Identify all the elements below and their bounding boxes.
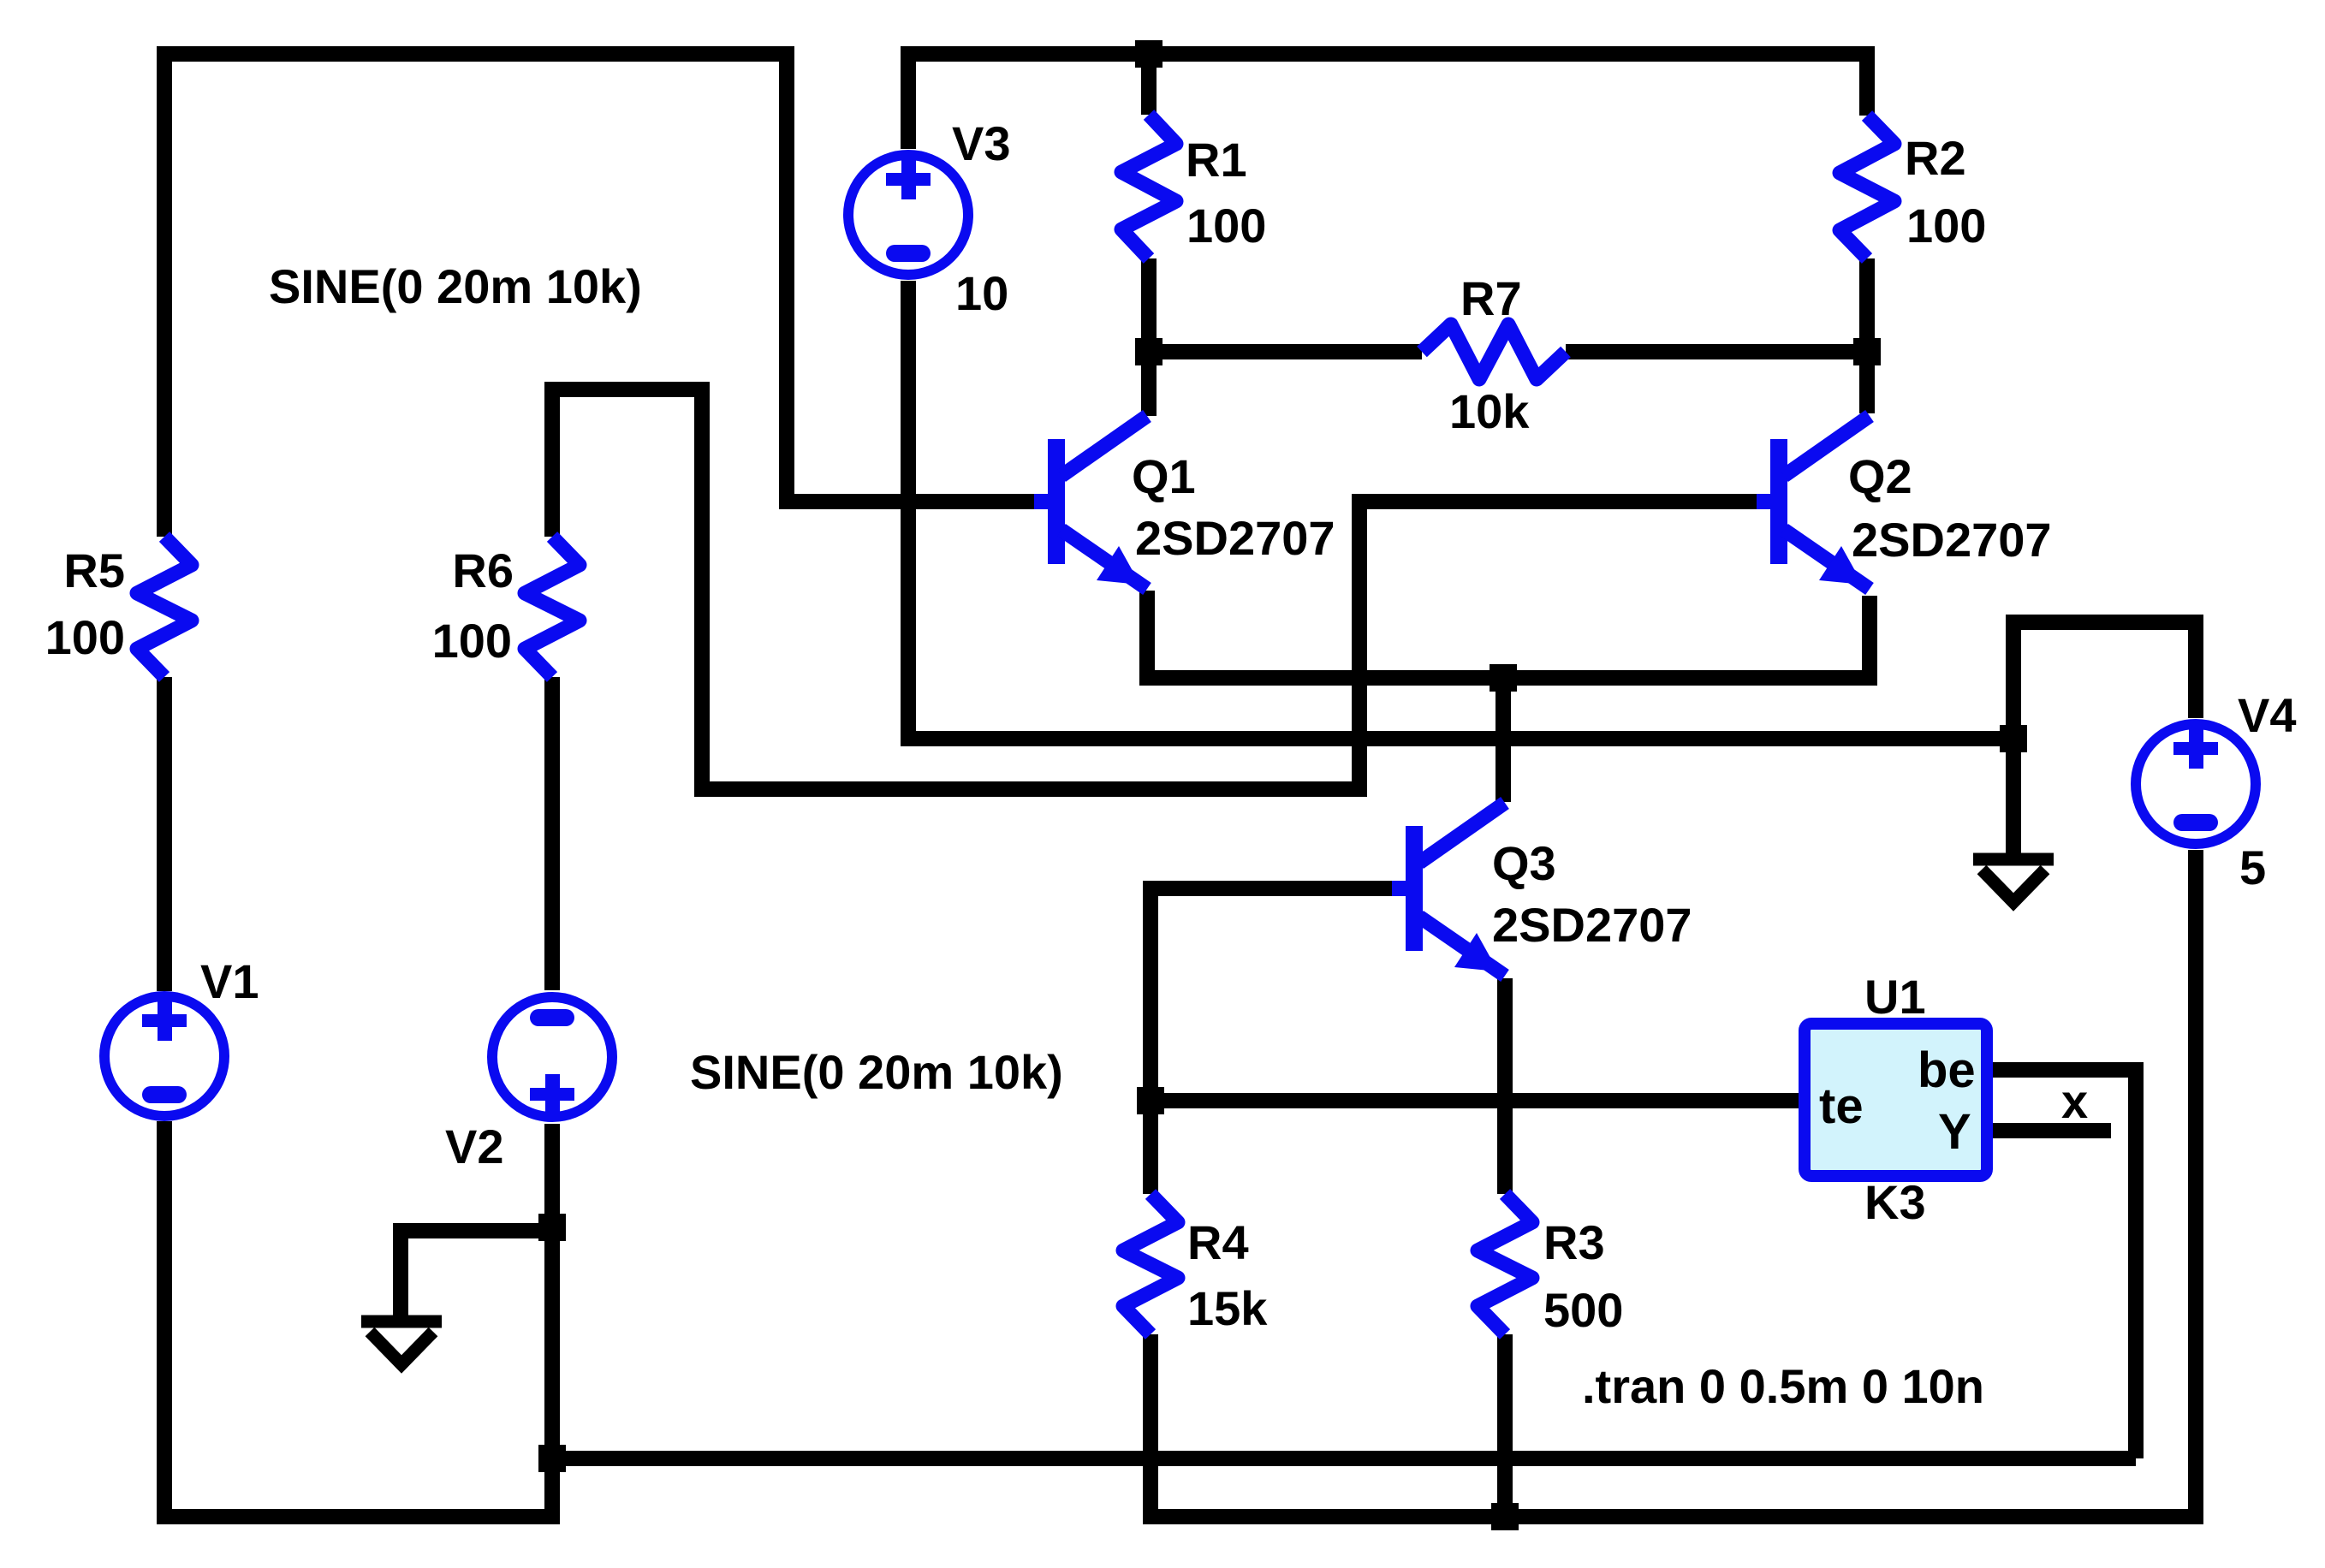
svg-text:V4: V4 — [2238, 688, 2297, 742]
svg-text:100: 100 — [1906, 199, 1986, 252]
svg-text:V3: V3 — [952, 116, 1011, 170]
svg-text:5: 5 — [2239, 840, 2266, 894]
svg-text:be: be — [1918, 1042, 1976, 1098]
svg-text:15k: 15k — [1187, 1281, 1268, 1335]
svg-text:R7: R7 — [1460, 271, 1522, 325]
svg-text:2SD2707: 2SD2707 — [1135, 511, 1335, 565]
svg-text:Q3: Q3 — [1492, 836, 1556, 890]
svg-text:x: x — [2061, 1074, 2088, 1128]
svg-text:10: 10 — [955, 266, 1008, 320]
svg-text:100: 100 — [432, 614, 512, 668]
svg-text:V2: V2 — [445, 1120, 504, 1173]
svg-text:SINE(0 20m 10k): SINE(0 20m 10k) — [690, 1045, 1063, 1099]
svg-text:10k: 10k — [1449, 384, 1530, 438]
svg-text:2SD2707: 2SD2707 — [1492, 898, 1692, 952]
svg-text:te: te — [1819, 1078, 1864, 1134]
svg-text:R6: R6 — [452, 543, 514, 597]
svg-text:Q2: Q2 — [1848, 449, 1912, 503]
svg-text:R2: R2 — [1905, 131, 1966, 185]
svg-text:100: 100 — [1186, 199, 1266, 252]
svg-text:K3: K3 — [1864, 1175, 1926, 1229]
svg-text:2SD2707: 2SD2707 — [1852, 513, 2052, 567]
svg-text:V1: V1 — [200, 954, 259, 1008]
svg-text:100: 100 — [45, 610, 125, 664]
svg-text:.tran 0 0.5m 0 10n: .tran 0 0.5m 0 10n — [1582, 1359, 1984, 1413]
svg-text:R4: R4 — [1187, 1215, 1249, 1269]
svg-text:R3: R3 — [1543, 1215, 1605, 1269]
svg-text:Y: Y — [1938, 1104, 1971, 1160]
svg-text:R5: R5 — [63, 543, 125, 597]
svg-text:SINE(0 20m 10k): SINE(0 20m 10k) — [269, 259, 642, 313]
svg-text:Q1: Q1 — [1132, 449, 1196, 503]
svg-text:U1: U1 — [1864, 970, 1926, 1024]
svg-text:500: 500 — [1543, 1283, 1623, 1337]
svg-text:R1: R1 — [1186, 133, 1247, 187]
